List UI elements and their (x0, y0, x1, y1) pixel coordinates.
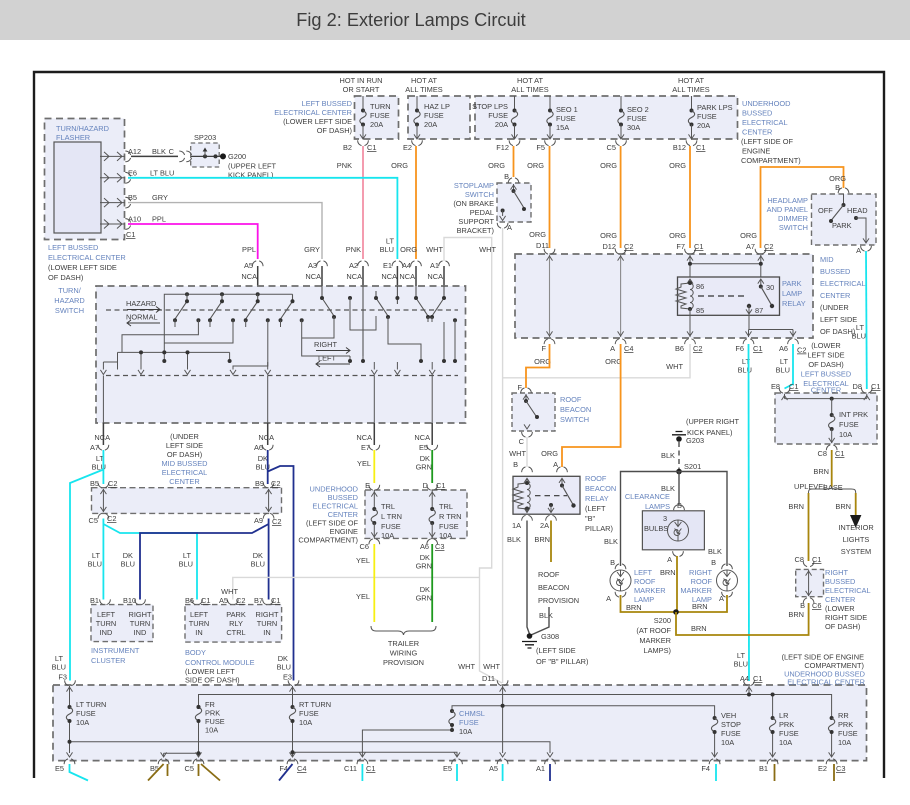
svg-text:ORG: ORG (669, 161, 686, 170)
svg-text:C1: C1 (789, 382, 798, 391)
svg-text:SWITCH: SWITCH (55, 306, 84, 315)
internal bus wires (70, 686, 832, 757)
svg-text:SEO 1: SEO 1 (556, 105, 578, 114)
ground G200 (219, 152, 277, 180)
svg-text:WHT: WHT (458, 662, 475, 671)
svg-text:B10: B10 (123, 596, 136, 605)
svg-text:R TRN: R TRN (439, 512, 461, 521)
svg-text:TRL: TRL (381, 502, 395, 511)
cluster INSTRUMENT CLUSTER (90, 596, 153, 642)
svg-text:HOT AT: HOT AT (411, 76, 437, 85)
svg-text:E6: E6 (128, 169, 137, 178)
svg-text:B7: B7 (254, 596, 263, 605)
svg-text:C2: C2 (693, 344, 702, 353)
svg-text:(UNDER: (UNDER (820, 303, 849, 312)
svg-text:D11: D11 (482, 674, 495, 683)
svg-text:A5: A5 (489, 764, 498, 773)
wire ORG E2 to A4 (415, 146, 417, 259)
switch HEADLAMP AND PANEL DIMMER SWITCH (812, 194, 877, 255)
bussed center MID BUSSED ELECTRICAL CENTER (small) (89, 479, 282, 526)
svg-text:ROOF: ROOF (585, 474, 607, 483)
node A3 GRY NCA (304, 245, 327, 286)
bus1 FR PRK to RR PRK (199, 695, 832, 719)
svg-text:C2: C2 (271, 479, 280, 488)
svg-text:HAZARD: HAZARD (54, 296, 84, 305)
svg-text:1A: 1A (512, 521, 521, 530)
internal wire 85 to B6 (689, 309, 691, 337)
svg-text:E: E (365, 481, 370, 490)
svg-text:IN: IN (195, 628, 202, 637)
svg-text:BLK: BLK (539, 611, 553, 620)
svg-text:VEH: VEH (721, 711, 736, 720)
label ROOF BEACON SWITCH (560, 395, 591, 424)
svg-text:BUSSED: BUSSED (820, 267, 850, 276)
wire stub C11 lt blu (361, 764, 363, 781)
fuse FR PRK FUSE 10A (195, 705, 201, 723)
node A2 PNK NCA (346, 245, 369, 286)
svg-text:WHT: WHT (221, 587, 238, 596)
svg-text:BRN: BRN (660, 568, 676, 577)
svg-text:ROOF: ROOF (691, 577, 713, 586)
wire BRN left branch to C8/C1 right bussed (808, 493, 810, 561)
svg-text:PPL: PPL (152, 215, 166, 224)
pin F3 top (65, 680, 76, 685)
pin E5 NCA out (414, 423, 437, 472)
pin A C4 bottom (615, 339, 626, 344)
svg-text:BLU: BLU (734, 660, 748, 669)
svg-text:ROOF: ROOF (560, 395, 582, 404)
fuse VEH STOP FUSE 10A (711, 716, 717, 734)
svg-text:C1: C1 (812, 555, 821, 564)
svg-text:ELECTRICAL: ELECTRICAL (820, 279, 866, 288)
svg-text:A12: A12 (128, 147, 141, 156)
svg-text:OF DASH): OF DASH) (825, 622, 860, 631)
svg-text:SIDE OF DASH): SIDE OF DASH) (185, 676, 240, 685)
svg-text:86: 86 (696, 282, 704, 291)
svg-text:BLU: BLU (179, 560, 193, 569)
svg-text:D: D (423, 481, 428, 490)
wire LT BLU C5 to B1 and branch to B6 (102, 519, 104, 600)
svg-text:G200: G200 (228, 152, 246, 161)
svg-text:G308: G308 (541, 632, 559, 641)
svg-text:CTRL: CTRL (226, 628, 245, 637)
svg-text:ELECTRICAL CENTER: ELECTRICAL CENTER (787, 678, 865, 687)
svg-text:A6: A6 (779, 344, 788, 353)
wire ORG F12 to stoplamp switch B (513, 146, 515, 177)
svg-text:15A: 15A (556, 123, 569, 132)
pin A7 NCA out (90, 423, 110, 472)
wire BRN 2A roof beacon provision (550, 521, 552, 563)
svg-text:PROVISION: PROVISION (383, 658, 424, 667)
svg-text:C1: C1 (835, 449, 844, 458)
wire WHT stoplamp A to D11 (502, 228, 504, 683)
pin D12 C2 top (615, 249, 626, 254)
pin E3 top (288, 680, 299, 685)
wire LT BLU F6 to A4 (bottom) (748, 344, 751, 681)
svg-text:YEL: YEL (357, 459, 371, 468)
svg-text:LAMPS: LAMPS (645, 502, 670, 511)
svg-text:ORG: ORG (400, 245, 417, 254)
pin A4 top (744, 680, 755, 685)
svg-text:NCA: NCA (258, 433, 274, 442)
svg-text:MARKER: MARKER (634, 586, 666, 595)
splice SP203 (186, 133, 219, 167)
svg-text:E7: E7 (361, 443, 370, 452)
switch hazard contacts (left group) (175, 294, 293, 319)
label MID BUSSED ELECTRICAL CENTER (under left side of dash) (820, 255, 866, 336)
svg-text:SWITCH: SWITCH (465, 190, 494, 199)
wire WHT A5 BCM to A1 wht junction (233, 577, 480, 599)
svg-text:10A: 10A (459, 727, 472, 736)
svg-text:IND: IND (134, 628, 147, 637)
svg-text:85: 85 (696, 306, 704, 315)
wire stub E2/C3 brn (833, 764, 835, 781)
CHMSL lower to C11 (362, 725, 452, 757)
svg-text:A10: A10 (128, 215, 141, 224)
wire WHT B6 to stoplamp wht (503, 344, 690, 378)
svg-text:C1: C1 (126, 230, 135, 239)
pin F5 (545, 140, 556, 145)
svg-text:ORG: ORG (541, 449, 558, 458)
svg-text:CONTROL MODULE: CONTROL MODULE (185, 658, 255, 667)
svg-text:A9: A9 (254, 516, 263, 525)
svg-text:STOP: STOP (721, 720, 741, 729)
svg-text:ORG: ORG (600, 161, 617, 170)
svg-text:LEFT: LEFT (97, 610, 116, 619)
svg-text:PNK: PNK (346, 245, 361, 254)
svg-text:C8: C8 (818, 449, 827, 458)
svg-text:E5: E5 (419, 443, 428, 452)
arrow to interior lights system (850, 515, 861, 528)
wire stub E5 lt blu (70, 764, 89, 781)
svg-text:LEFT BUSSED: LEFT BUSSED (48, 243, 98, 252)
svg-text:RLY: RLY (229, 619, 243, 628)
svg-text:C3: C3 (435, 542, 444, 551)
FR PRK lower split (164, 721, 199, 757)
svg-text:87: 87 (755, 306, 763, 315)
svg-text:HEADLAMP: HEADLAMP (767, 196, 808, 205)
svg-text:WHT: WHT (426, 245, 443, 254)
wire stub F4/C4 dk blu (279, 764, 293, 781)
svg-text:TURN: TURN (130, 619, 151, 628)
svg-text:BLU: BLU (251, 560, 265, 569)
svg-text:B: B (513, 460, 518, 469)
svg-text:MID: MID (820, 255, 834, 264)
label INTERIOR LIGHTS SYSTEM (838, 523, 873, 556)
D11 column (502, 686, 504, 753)
svg-text:C: C (169, 147, 175, 156)
svg-text:A1: A1 (430, 261, 439, 270)
fuse RT TURN FUSE 10A (289, 705, 295, 723)
svg-text:F: F (541, 344, 546, 353)
node A5 PPL NCA (241, 245, 263, 286)
svg-text:BLU: BLU (776, 366, 790, 375)
svg-text:(LOWER: (LOWER (811, 341, 841, 350)
svg-text:BEACON: BEACON (560, 405, 591, 414)
svg-text:ORG: ORG (527, 161, 544, 170)
svg-text:C1: C1 (871, 382, 880, 391)
wire DK BLU A6 to B9 and branch to E3 (267, 450, 269, 484)
svg-text:C2: C2 (107, 514, 116, 523)
svg-text:FUSE: FUSE (556, 114, 576, 123)
fuse SEO 2 FUSE 30A (620, 96, 622, 111)
svg-text:BLU: BLU (738, 366, 752, 375)
svg-text:B6: B6 (675, 344, 684, 353)
switch right group contacts (322, 286, 444, 356)
wire LT BLU headlamp A to D8 (865, 251, 868, 389)
svg-text:RIGHT: RIGHT (129, 610, 152, 619)
svg-text:B5: B5 (90, 479, 99, 488)
wire WHT A1 up-over (444, 238, 502, 684)
svg-text:ROOF: ROOF (634, 577, 656, 586)
svg-text:HOT IN RUN: HOT IN RUN (340, 76, 383, 85)
svg-text:C2: C2 (108, 479, 117, 488)
svg-text:FUSE: FUSE (381, 522, 401, 531)
svg-text:PRK: PRK (838, 720, 853, 729)
svg-text:OF "B" PILLAR): OF "B" PILLAR) (536, 657, 588, 666)
svg-text:C1: C1 (201, 596, 210, 605)
svg-text:SWITCH: SWITCH (779, 223, 808, 232)
wire GRY B5 to A3 (128, 203, 322, 259)
svg-text:INTERIOR: INTERIOR (838, 523, 873, 532)
wire BLK provision stub to G308 (531, 607, 549, 635)
pin B12 C1 (686, 140, 697, 145)
label INSTRUMENT CLUSTER (91, 646, 140, 665)
svg-text:WIRING: WIRING (390, 649, 418, 658)
lamp RIGHT ROOF MARKER LAMP (711, 558, 737, 603)
svg-text:B: B (800, 601, 805, 610)
svg-text:OF DASH): OF DASH) (167, 450, 202, 459)
svg-text:NCA: NCA (241, 272, 257, 281)
pin D11 top (544, 249, 555, 254)
svg-text:E2: E2 (403, 143, 412, 152)
svg-text:A2: A2 (349, 261, 358, 270)
label TRAILER WIRING PROVISION (383, 639, 424, 667)
svg-text:D12: D12 (602, 242, 616, 251)
fuse LT TURN FUSE 10A (66, 705, 72, 723)
svg-text:NCA: NCA (346, 272, 362, 281)
svg-text:RIGHT: RIGHT (314, 340, 337, 349)
svg-text:YEL: YEL (356, 556, 370, 565)
svg-text:ORG: ORG (829, 174, 846, 183)
svg-text:A: A (719, 594, 724, 603)
svg-text:F6: F6 (735, 344, 744, 353)
svg-text:A4: A4 (740, 674, 749, 683)
svg-text:30: 30 (766, 283, 774, 292)
svg-text:C2: C2 (236, 596, 245, 605)
svg-text:A5: A5 (219, 596, 228, 605)
svg-text:LEFT SIDE: LEFT SIDE (820, 315, 857, 324)
wire ORG A/C4 to roof beacon relay A (562, 344, 621, 467)
wire ORG F to roof beacon switch F (526, 344, 550, 388)
svg-text:HOT AT: HOT AT (678, 76, 704, 85)
bus2 CHMSL to VEH STOP (452, 706, 715, 718)
svg-text:PPL: PPL (242, 245, 256, 254)
label LEFT ROOF MARKER LAMP (634, 568, 666, 604)
svg-text:FUSE: FUSE (76, 709, 96, 718)
relay ROOF BEACON RELAY (512, 467, 580, 530)
svg-text:B2: B2 (343, 143, 352, 152)
lamp CLEARANCE LAMPS 3 BULBS (642, 505, 704, 557)
label (LEFT SIDE OF ENGINE COMPARTMENT) UNDERHOOD BUSSED ELECTRICAL CENTER (782, 653, 865, 687)
svg-text:NCA: NCA (381, 272, 397, 281)
exit arrows bottom edge (67, 752, 73, 757)
pin D11 top (497, 680, 508, 685)
svg-text:20A: 20A (697, 121, 710, 130)
fuse STOP LPS FUSE 20A (514, 96, 516, 111)
svg-text:ELECTRICAL: ELECTRICAL (742, 118, 788, 127)
fuse RT TURN column (292, 686, 294, 707)
svg-text:E8: E8 (771, 382, 780, 391)
wire stub A1 dk blu (549, 764, 551, 781)
svg-text:B: B (711, 558, 716, 567)
VEH STOP lower (714, 732, 716, 757)
svg-text:MID BUSSED: MID BUSSED (162, 459, 208, 468)
svg-text:LEFT: LEFT (634, 568, 653, 577)
LR PRK column (772, 695, 774, 719)
svg-text:HOT AT: HOT AT (517, 76, 543, 85)
svg-text:BLU: BLU (52, 663, 66, 672)
label HAZARD arrow (126, 299, 160, 313)
svg-text:BLK: BLK (708, 547, 722, 556)
svg-text:RELAY: RELAY (585, 494, 609, 503)
svg-text:10A: 10A (76, 718, 89, 727)
svg-text:WHT: WHT (666, 362, 683, 371)
wire stub C5 brn (199, 764, 221, 781)
pin E6 (125, 172, 130, 183)
label UNDERHOOD BUSSED ELECTRICAL CENTER (left side of engine compartment) (741, 99, 801, 165)
labels above bottom box left (52, 654, 67, 682)
wire LT BLU E6 to E1 (128, 178, 397, 259)
switch STOPLAMP SWITCH (497, 172, 531, 232)
A4 column (748, 686, 750, 695)
fuse box HAZ LP FUSE (408, 96, 470, 139)
label UNDERHOOD BUSSED ELECTRICAL CENTER (left side of engine compartment) (298, 485, 358, 545)
svg-text:BRN: BRN (835, 502, 851, 511)
label LEFT BUSSED ELECTRICAL CENTER (lower left side of dash) (274, 99, 352, 135)
wire BLK 1A to G308 (527, 521, 530, 635)
svg-text:LEFT SIDE: LEFT SIDE (166, 441, 203, 450)
svg-text:TURN/HAZARD: TURN/HAZARD (56, 124, 109, 133)
svg-text:C11: C11 (344, 764, 357, 773)
internal wire D12 column (620, 255, 622, 337)
wire BRN right marker A to S200 (676, 595, 727, 612)
svg-text:C5: C5 (607, 143, 616, 152)
svg-text:MARKER: MARKER (680, 586, 712, 595)
svg-text:RELAY: RELAY (782, 299, 806, 308)
label STOPLAMP SWITCH (on brake pedal support bracket) (453, 181, 494, 235)
svg-text:NCA: NCA (94, 433, 110, 442)
svg-text:ELECTRICAL CENTER: ELECTRICAL CENTER (48, 253, 126, 262)
svg-text:FUSE: FUSE (459, 718, 479, 727)
svg-text:GRN: GRN (416, 562, 432, 571)
svg-text:C2: C2 (624, 242, 633, 251)
svg-text:TURN: TURN (96, 619, 117, 628)
svg-text:C1: C1 (753, 344, 762, 353)
switch top bus wire (164, 294, 292, 352)
label NORMAL arrow (126, 313, 160, 327)
svg-text:F5: F5 (536, 143, 545, 152)
svg-text:RIGHT: RIGHT (256, 610, 279, 619)
svg-text:A6: A6 (254, 443, 263, 452)
svg-text:BRACKET): BRACKET) (457, 226, 494, 235)
svg-text:B: B (835, 183, 840, 192)
svg-text:OF DASH): OF DASH) (48, 273, 83, 282)
svg-text:ELECTRICAL: ELECTRICAL (825, 586, 871, 595)
pin F6 C1 bottom (743, 339, 754, 344)
svg-text:LEFT BUSSED: LEFT BUSSED (801, 370, 851, 379)
svg-text:A7: A7 (90, 443, 99, 452)
svg-text:20A: 20A (424, 120, 437, 129)
svg-text:STOP LPS: STOP LPS (472, 102, 508, 111)
svg-text:DIMMER: DIMMER (778, 214, 808, 223)
svg-text:BRN: BRN (813, 467, 829, 476)
svg-text:C1: C1 (436, 481, 445, 490)
svg-text:C8: C8 (795, 555, 804, 564)
svg-text:A: A (507, 223, 512, 232)
svg-text:CENTER: CENTER (825, 595, 855, 604)
svg-text:B5: B5 (150, 764, 159, 773)
svg-text:TURN: TURN (257, 619, 278, 628)
svg-text:LAMP: LAMP (782, 289, 802, 298)
svg-text:BUSSED: BUSSED (742, 109, 772, 118)
label PARK LAMP RELAY (782, 279, 806, 308)
svg-text:(LEFT SIDE: (LEFT SIDE (536, 646, 576, 655)
svg-text:C1: C1 (271, 596, 280, 605)
svg-text:2A: 2A (540, 521, 549, 530)
svg-text:C4: C4 (624, 344, 633, 353)
svg-text:RT TURN: RT TURN (299, 700, 331, 709)
svg-text:A: A (606, 594, 611, 603)
wire stub E5 (mid) lt blu (456, 764, 458, 781)
svg-text:BLU: BLU (121, 560, 135, 569)
fuse box UNDERHOOD BUSSED ELECTRICAL CENTER (stop lps, seo1, seo2, park lps) (472, 96, 737, 139)
svg-text:BASE: BASE (823, 483, 843, 492)
svg-text:C1: C1 (696, 143, 705, 152)
relay PARK LAMP RELAY (678, 277, 780, 315)
svg-text:F3: F3 (58, 673, 67, 682)
svg-text:(AT ROOF: (AT ROOF (636, 626, 671, 635)
svg-text:BEACON: BEACON (585, 484, 616, 493)
svg-text:A3: A3 (308, 261, 317, 270)
switch arrows onto rail 2 (100, 370, 435, 375)
svg-text:SWITCH: SWITCH (560, 415, 589, 424)
label (UNDER LEFT SIDE OF DASH) MID BUSSED ELECTRICAL CENTER (162, 432, 208, 486)
svg-text:FUSE: FUSE (838, 729, 858, 738)
fuse SEO 1 FUSE 15A (549, 96, 551, 111)
exit connectors on bottom edge (64, 759, 75, 764)
svg-text:LEFT: LEFT (190, 610, 209, 619)
svg-text:COMPARTMENT): COMPARTMENT) (741, 156, 801, 165)
svg-text:(LOWER LEFT SIDE: (LOWER LEFT SIDE (283, 117, 352, 126)
label LEFT BUSSED ELECTRICAL CENTER (lower left side of dash) (48, 243, 126, 282)
svg-text:C4: C4 (297, 764, 306, 773)
fuse box TURN FUSE (left bussed electrical center) (355, 96, 399, 139)
pin F7 C1 top (685, 249, 696, 254)
wire BRN C8 down to split (831, 450, 833, 487)
internal wire D11 column (549, 255, 551, 337)
svg-text:RR: RR (838, 711, 849, 720)
svg-text:BLU: BLU (852, 332, 866, 341)
bus3 LT TURN to A1 (70, 721, 551, 753)
svg-text:FUSE: FUSE (299, 709, 319, 718)
relay TURN/HAZARD FLASHER (45, 119, 125, 240)
label HEADLAMP AND PANEL DIMMER SWITCH (767, 196, 808, 232)
bussed center TRL fuses (underhood) (360, 481, 467, 551)
svg-text:BLK: BLK (152, 147, 166, 156)
svg-text:FUSE: FUSE (627, 114, 647, 123)
svg-text:OF DASH): OF DASH) (820, 327, 855, 336)
